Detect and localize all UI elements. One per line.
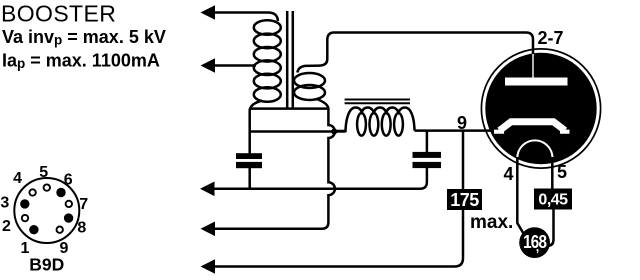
svg-text:0,45: 0,45 [538,192,568,209]
wire C: pin9 line down to arrow 5 [213,131,463,267]
pin 3 (filled) [20,199,29,208]
heater lead pin 5 [548,157,554,246]
svg-text:168: 168 [523,231,546,253]
pin 8 (filled) [64,213,73,222]
wire C1 to inductor (y131.5) [250,130,346,133]
svg-text:5: 5 [39,164,48,181]
pin 2 (open) [22,215,28,221]
base diagram B9D socket outline [14,178,79,243]
wire primary bottom lead [250,101,262,112]
svg-text:4: 4 [503,164,513,184]
tube V1 envelope outer circle [481,49,600,168]
svg-text:4: 4 [13,170,22,187]
pin 9 (open) [57,227,63,233]
anode lead white inside [532,54,534,78]
pin 5 (open) [44,184,50,190]
value box 175 [447,189,482,210]
capacitor C1 [236,153,262,159]
wire B vertical rail with hops, to arrow 4 [213,109,335,229]
svg-text:8: 8 [77,220,86,237]
svg-text:7: 7 [79,196,88,213]
arrow terminal 4 [201,222,216,237]
transformer T1 core [287,11,293,108]
value circle 168 [519,227,550,258]
wire primary tap lead [211,64,256,67]
svg-text:max.: max. [470,212,513,233]
svg-text:3: 3 [0,195,9,212]
value box 0,45 [534,189,572,210]
capacitor C2 [413,152,442,158]
wire secondary bottom lead [317,99,329,109]
node junction dot at crossing [331,129,337,135]
heater arc (white) [517,140,552,158]
svg-text:5: 5 [557,162,567,182]
svg-text:1: 1 [20,240,29,257]
wire primary top lead [211,13,278,22]
svg-text:B9D: B9D [29,255,64,275]
svg-text:2-7: 2-7 [538,28,564,48]
svg-text:Iap = max. 1100mA: Iap = max. 1100mA [2,51,160,72]
anode plate (white bar) [505,78,568,86]
pin 4 (open) [29,189,35,195]
heater lead pin 4 [517,157,523,234]
pin 7 (open) [66,201,72,207]
svg-text:BOOSTER: BOOSTER [1,1,116,27]
wire secondary top lead up [297,40,327,73]
wire left vertical to capacitor C1 [248,109,251,154]
inductor L1 winding [336,108,415,136]
svg-text:,: , [536,240,539,254]
arrow terminal 5 [201,259,216,274]
wire transformer bottom bus [250,107,329,110]
wire C1 bottom lead [248,168,251,189]
pin 1 (filled) [29,225,38,234]
tube V1 black body [485,53,596,164]
transformer T1 secondary winding (2 turns) [294,40,328,109]
svg-text:6: 6 [64,172,73,189]
wire anode top run to tube [327,33,533,55]
svg-text:2: 2 [2,218,11,235]
pin 6 (filled) [56,188,65,197]
arrow terminal 3 [200,182,215,197]
arrow terminal 1 (transformer primary top) [201,5,216,20]
wire main run to tube (grid line) [415,129,497,132]
cathode (white hat) [500,122,566,131]
arrow terminal 2 (transformer primary tap) [201,58,216,73]
wire A bottom bus to capacitor C2 [211,168,427,189]
inductor L1 core [345,100,410,104]
capacitor C2 top lead [426,131,429,152]
svg-text:Va invp = max. 5 kV: Va invp = max. 5 kV [2,27,166,48]
transformer T1 primary winding (6 turns) [250,20,281,111]
svg-text:175: 175 [450,190,479,210]
svg-text:9: 9 [457,113,467,133]
